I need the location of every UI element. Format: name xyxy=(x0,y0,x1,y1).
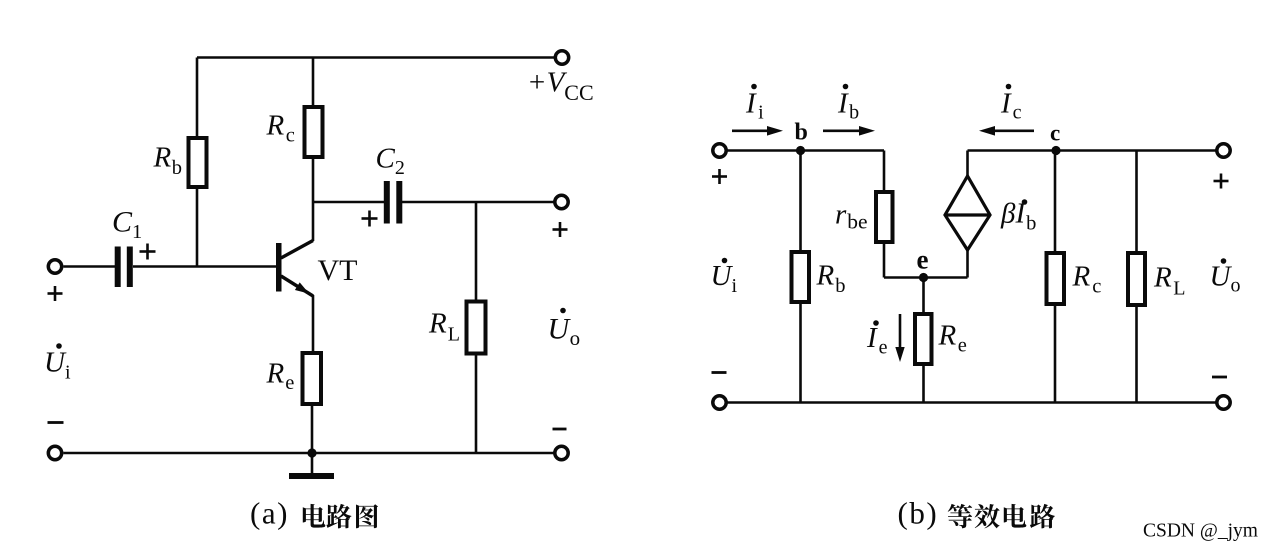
wire top rail right (b) xyxy=(968,149,1218,152)
resistor Re xyxy=(303,353,322,404)
label Uo (a) xyxy=(548,308,581,350)
label Rc (b) xyxy=(1072,261,1102,298)
label Ui (a) xyxy=(44,343,71,383)
label Re xyxy=(266,358,295,395)
terminal input bottom xyxy=(48,446,61,459)
svg-text:Re: Re xyxy=(938,320,967,357)
label minus right (b) xyxy=(1212,376,1227,379)
svg-text:Ie: Ie xyxy=(866,322,888,359)
label Ic with left arrow xyxy=(1000,84,1022,124)
label + right of C1 xyxy=(140,244,156,260)
terminal output top xyxy=(555,195,568,208)
label beta-Ib xyxy=(1000,198,1036,235)
caption (b) CJK: deng xiao dian lu xyxy=(948,504,1055,529)
terminal output bottom xyxy=(555,446,568,459)
svg-text:Ii: Ii xyxy=(745,88,764,124)
svg-text:Rb: Rb xyxy=(816,260,846,298)
svg-text:C2: C2 xyxy=(376,143,405,180)
label node b xyxy=(795,120,808,146)
label Rb (b) xyxy=(816,260,846,298)
resistor Rc xyxy=(312,58,315,108)
svg-text:Re: Re xyxy=(266,358,295,395)
transistor VT xyxy=(276,243,282,292)
label Ui (b) xyxy=(711,258,738,297)
svg-text:Uo: Uo xyxy=(1210,261,1241,297)
svg-text:RL: RL xyxy=(1153,262,1185,300)
label + below input xyxy=(48,286,63,301)
svg-text:(a): (a) xyxy=(250,496,289,531)
label + left of C2 xyxy=(362,211,378,227)
svg-text:C1: C1 xyxy=(112,206,142,244)
node e xyxy=(919,273,928,282)
label RL (b) xyxy=(1153,262,1185,300)
resistor RL xyxy=(475,202,478,303)
label Ii with arrow xyxy=(745,84,764,124)
capacitor C1 xyxy=(64,265,116,268)
wire bottom rail (a) xyxy=(64,452,556,455)
svg-text:βIb: βIb xyxy=(1000,198,1036,235)
caption (a) xyxy=(250,496,289,531)
label Rb xyxy=(153,142,182,180)
label node c xyxy=(1050,121,1060,146)
label +Vcc xyxy=(527,67,594,106)
label node e xyxy=(917,245,929,275)
terminal input bottom (b) xyxy=(713,396,726,409)
resistor RL (b) xyxy=(1135,151,1138,254)
label RL xyxy=(428,308,460,346)
svg-text:b: b xyxy=(795,120,808,146)
svg-text:e: e xyxy=(917,245,929,275)
terminal input top (b) xyxy=(713,144,726,157)
label minus left (b) xyxy=(712,371,727,374)
terminal +Vcc xyxy=(555,51,568,64)
caption (a) CJK: dian lu tu xyxy=(303,504,378,528)
label Rc xyxy=(266,110,295,147)
label Re (b) xyxy=(938,320,967,357)
svg-text:Rb: Rb xyxy=(153,142,182,180)
svg-text:+VCC: +VCC xyxy=(527,67,594,106)
resistor Rb (b) xyxy=(799,151,802,253)
label Ib with arrow xyxy=(837,84,859,124)
svg-text:RL: RL xyxy=(428,308,460,346)
terminal input top xyxy=(48,260,61,273)
svg-text:Rc: Rc xyxy=(1072,261,1102,298)
svg-text:(b): (b) xyxy=(898,496,939,531)
svg-text:c: c xyxy=(1050,121,1060,146)
node c xyxy=(1051,146,1060,155)
label + below output top xyxy=(553,222,568,237)
label minus left (a) xyxy=(48,421,64,424)
svg-text:Ui: Ui xyxy=(711,260,738,297)
svg-text:Rc: Rc xyxy=(266,110,295,147)
label C2 xyxy=(376,143,405,180)
capacitor C2 xyxy=(313,201,384,204)
label VT xyxy=(318,254,358,287)
wire bottom rail (b) xyxy=(727,401,1217,404)
label Uo (b) xyxy=(1210,258,1241,296)
svg-text:VT: VT xyxy=(318,254,358,287)
current source beta-Ib xyxy=(966,151,969,177)
label + right (b) xyxy=(1214,174,1229,189)
svg-text:Ic: Ic xyxy=(1000,88,1022,124)
node b xyxy=(796,146,805,155)
resistor Rc (b) xyxy=(1054,151,1057,254)
svg-text:Uo: Uo xyxy=(548,313,581,351)
wire e horizontal xyxy=(884,276,968,279)
svg-text:CSDN @_jym: CSDN @_jym xyxy=(1143,521,1258,542)
junction dot at ground xyxy=(307,448,316,457)
terminal output top (b) xyxy=(1217,144,1230,157)
svg-text:Ib: Ib xyxy=(837,88,859,124)
svg-text:rbe: rbe xyxy=(835,199,868,234)
label Ie with down arrow xyxy=(866,320,888,358)
label C1 xyxy=(112,206,142,244)
resistor Rb xyxy=(196,58,199,139)
ground xyxy=(311,453,314,473)
label + left (b) xyxy=(712,169,727,184)
terminal output bottom (b) xyxy=(1217,396,1230,409)
caption (b) xyxy=(898,496,939,531)
wire top rail left (b) xyxy=(727,149,885,152)
resistor Re (b) xyxy=(922,278,925,315)
resistor rbe xyxy=(883,151,886,193)
svg-text:Ui: Ui xyxy=(44,347,71,384)
label rbe xyxy=(835,199,868,234)
wire: top supply rail xyxy=(197,56,555,59)
label minus right (a) xyxy=(553,428,567,431)
